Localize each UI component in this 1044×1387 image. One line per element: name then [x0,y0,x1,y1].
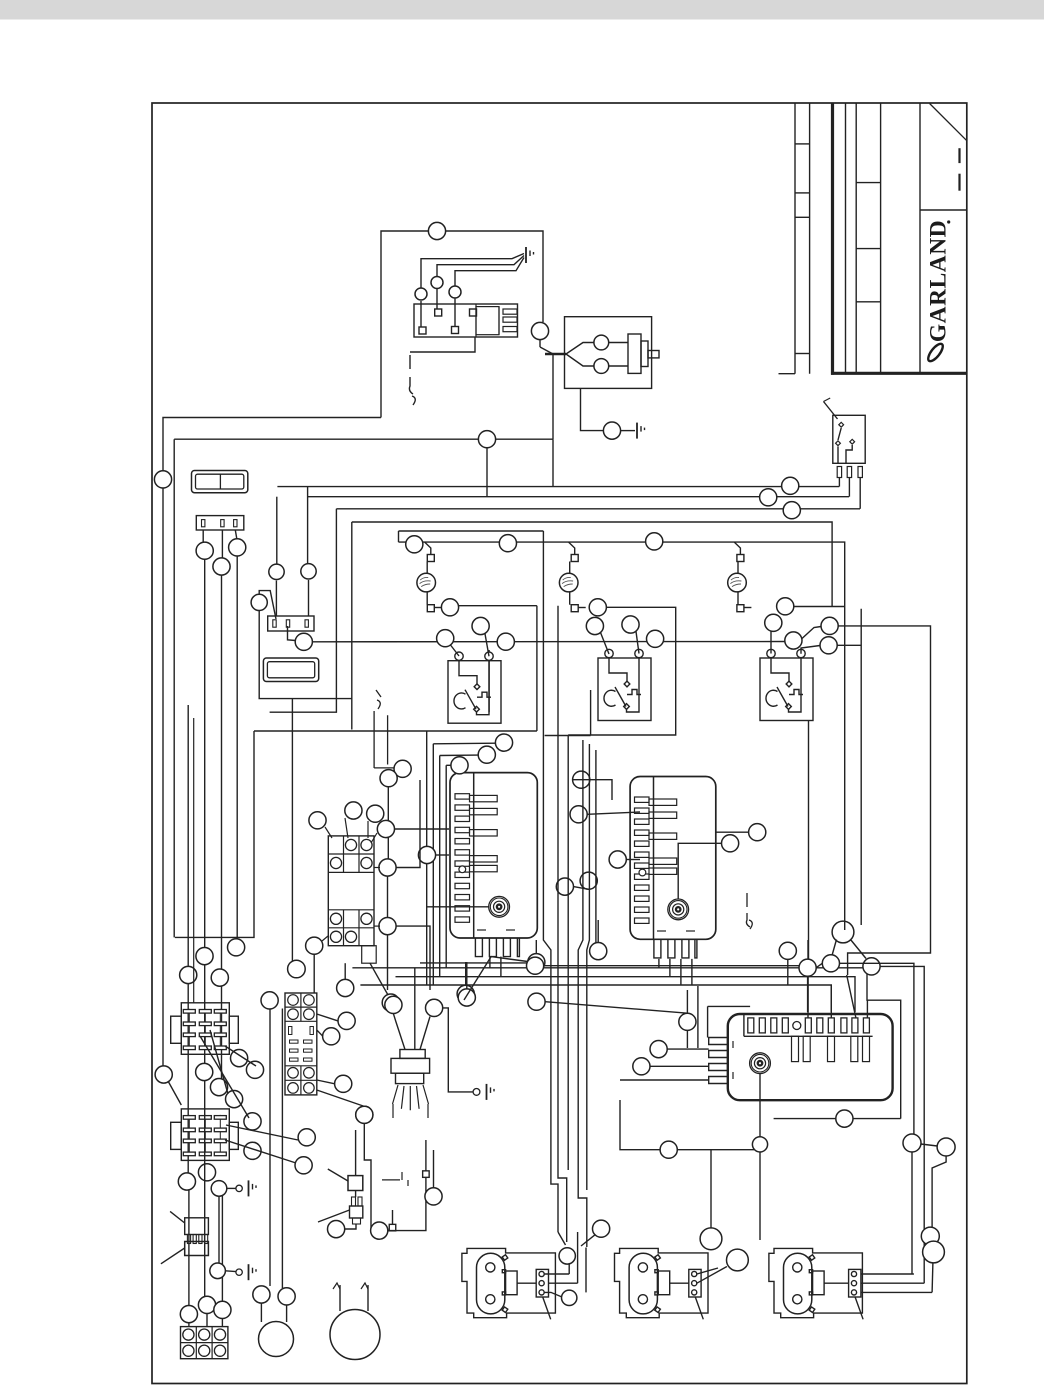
bus lower 5 [544,966,808,1012]
wire left vertical run E [236,556,238,939]
gray header bar [0,0,1044,20]
wire nut top [428,222,445,239]
relay base terminal [304,1009,315,1020]
diag wire [225,1046,256,1066]
base slots h [290,1040,299,1043]
module 2 tab [649,833,677,839]
wire nut [180,1306,197,1323]
relay base terminal [304,1083,315,1094]
base slots h [290,1058,299,1061]
left run G [193,718,195,1003]
transformer lead 2 [414,968,416,1050]
wire nut [379,859,396,876]
lamp feed bus [399,542,845,921]
wire nut [394,760,411,777]
module 1 slot [455,805,470,810]
strike lever 2 [161,1248,185,1264]
relay socket lower [171,1109,239,1161]
wire [317,1090,365,1106]
bus C left drop [270,509,337,712]
wire nut [298,1129,315,1146]
valve coil leads [609,342,628,344]
wire B c2 [697,1267,727,1284]
module 2 slot [635,852,650,857]
terminal pin 3 [452,327,459,334]
prong [205,1235,208,1244]
terminal grid [181,1327,228,1359]
wire nut burner B2 [727,1249,749,1271]
bus C [336,508,860,510]
wire nut [306,937,323,954]
lamp3 nut to right vertical [794,606,845,608]
wire nut [752,1137,767,1152]
wire nut burner A2 [562,1290,577,1305]
grid terminal [183,1329,194,1340]
pilot lamp 3 [728,573,747,592]
right vertical 2 [808,720,810,959]
title block thick bottom rule [831,372,967,375]
module 3 bullseye [750,1053,771,1074]
module 1 slot [455,906,470,911]
grid lines [181,1342,228,1344]
wire C c2 [861,1282,924,1284]
wire [364,1123,371,1230]
bundle wire 1 [543,531,558,1232]
relay1 loop vertical [488,650,490,712]
wire B c1 [697,1268,718,1274]
module 1 slot [455,850,470,855]
contactor terminal [330,913,341,924]
wire nut [377,820,394,837]
left run K [281,1009,283,1289]
wire [387,787,389,859]
lead [426,562,428,574]
contactor rows [328,853,374,855]
module 2 comb [654,939,697,958]
wire nut [198,1296,215,1313]
wire nut [371,1222,388,1239]
wire [597,920,599,943]
wire [686,1030,688,1048]
wire left vertical run C [204,559,206,1063]
wire nut [528,954,545,971]
module 3 slot [805,1018,811,1033]
relay base body [285,993,317,1095]
module 1 slot [455,839,470,844]
module 3 slot [748,1018,754,1033]
wire nut [458,989,475,1006]
module 2 break symbol [746,893,752,929]
diag wire [200,1036,249,1118]
module 1 slot [455,872,470,877]
lead [434,607,442,609]
wire [396,926,430,990]
wire A c1 to nut [544,1273,569,1275]
left run I2 [269,1009,271,1287]
ground G2 [637,423,645,439]
wire valve drop to bus A [552,439,554,486]
wire nut [556,878,573,895]
wire nut [593,1220,610,1237]
module 3 sense wire [759,1074,761,1137]
title block dash marks [958,148,960,163]
bundle left v4 [445,765,447,968]
lamp 3 feed [734,542,740,554]
lamp2 return wire [568,607,676,735]
wire nut run C mid [196,948,213,965]
wire [436,854,449,856]
motor lead [286,1305,288,1322]
module 1 tab [470,865,498,871]
wire nut [253,1286,270,1303]
module 3 tab [792,1036,799,1061]
wire top loop [381,231,543,418]
wire nut [820,637,837,654]
wire left vertical run B [173,439,175,937]
base slots h [290,1049,299,1052]
left run J [291,699,293,963]
pressure switch A [348,1176,363,1191]
lead [569,592,571,605]
module 2 slot [635,896,650,901]
wire [355,1191,357,1198]
strike lever A [328,1169,348,1181]
title block revision column [779,103,810,374]
module 1 comb [475,938,519,957]
module 2 comb drops [658,959,660,968]
wire to comb 2 [650,1065,709,1067]
wire nut [822,955,839,972]
wire nut [425,1188,442,1205]
junction sq A [423,1171,430,1178]
wire [716,831,749,833]
left run D2 [221,1196,223,1301]
wire [395,828,450,830]
wire [686,990,688,1013]
wire [466,962,468,989]
wire nut lamp3 [777,598,794,615]
wire nut [863,958,880,975]
grid terminal [214,1345,225,1356]
wire nut left drop [154,471,171,488]
bundle left v3 [439,756,441,977]
module 1 comb diagonals [464,957,491,1000]
contactor tab wire [370,963,388,995]
ground nut B [210,1263,226,1279]
interlock connector block [414,304,518,337]
wire nut [226,1091,243,1108]
diag to burner A nut [558,1232,566,1245]
transformer lead 3 [420,1017,430,1050]
wire nut [180,966,197,983]
wire [392,1210,394,1224]
drawing border frame [152,103,967,1384]
lead [737,592,739,605]
wire nut [382,994,399,1011]
module 1 tab [470,808,498,814]
wire nut [261,992,278,1009]
wire nut [385,996,402,1013]
wire nut [570,806,587,823]
wire [317,1030,323,1036]
hi-limit switch 3 [760,649,813,720]
lamp1 return wire [459,605,537,607]
wire nut [799,959,816,976]
wire [774,1118,901,1120]
wire nut bus B [760,489,777,506]
bundle wire 4 [578,740,587,1247]
wire nut [213,558,230,575]
module 3 slot [759,1018,765,1033]
wire nut [323,1028,340,1045]
wire nut lamp bus 2 [499,535,516,552]
contactor tab [362,946,377,964]
ground small circle A [236,1185,242,1191]
wire A right vertical [585,1248,587,1293]
module 3 slot [863,1018,869,1033]
contactor terminal [330,857,341,868]
contactor terminal [345,931,356,942]
diag [921,1144,938,1146]
module 3 feed 2 [830,985,832,1018]
spark ignitor A [462,1248,556,1319]
wire nut [345,802,362,819]
module 1 slot [455,917,470,922]
module 1 slot [455,861,470,866]
ground nut A [211,1181,227,1197]
module 2 dash marks [657,930,666,932]
rocker switch [192,471,248,493]
module 1 slot [455,883,470,888]
bundle wire 2 [558,606,567,1242]
wire nut [497,633,514,650]
wire to ground G2 [621,430,635,432]
module 2 slot [635,874,650,879]
module 3 feed 3 [866,1000,868,1018]
wire nut [211,969,228,986]
wire [396,780,420,868]
svg-text:GARLAND: GARLAND [926,220,952,342]
small nut 1 [415,288,427,300]
wire nut run E end [228,939,245,956]
valve ground wire [581,388,604,430]
wire nut [451,757,468,774]
wire nut [779,942,796,959]
wire [573,780,612,800]
GARLAND logo text [926,220,952,342]
wire nut [437,630,454,647]
diag feed [601,633,610,655]
module 2 slot [635,819,650,824]
wire [425,1140,427,1171]
diag wire [225,1140,296,1163]
module 1 tab [470,856,498,862]
transformer crowfoot [393,1085,429,1118]
contactor terminal [361,913,372,924]
jog wire [802,627,821,639]
module 3 slot [841,1018,847,1033]
ignition module 2 body [630,777,716,940]
wire [387,935,389,990]
diag staircase link [581,1235,595,1246]
relay base terminal [304,995,315,1006]
wire nut [198,1164,215,1181]
wire [697,986,699,1048]
module 1 tab [470,830,498,836]
bus E to lamp bus link [398,531,400,542]
wire [227,1187,236,1189]
contactor terminal [330,931,341,942]
pin lead [235,530,237,539]
wire nut [231,1050,248,1067]
wire nut to junction [539,340,541,347]
terminal pin 4 [470,309,477,316]
wire nut [328,1221,345,1238]
4-prong connector [185,1218,209,1235]
hi-limit switch 2 [598,649,651,720]
wire nut left of bar2 [251,594,267,610]
block connector [185,1242,209,1256]
wire nut [679,1013,696,1030]
return bus lower [254,730,537,732]
terminal pin 2 [435,309,442,316]
transformer lead 1 [393,1014,405,1050]
module 2 slot [635,841,650,846]
ground A [249,1180,257,1196]
lamp 3 top terminal [737,555,744,562]
wire nut [335,1075,352,1092]
Garland script swoosh [926,342,946,364]
wire [433,1150,435,1188]
wire [387,876,389,918]
module 3 feed diag [847,975,856,1018]
wire nut [647,630,664,647]
module 1 slot [455,827,470,832]
motor2 lead arrows [333,1283,368,1289]
relay2 section wire [590,690,592,736]
wire nut [921,1227,939,1245]
base slots v [289,1027,292,1035]
wire nut [214,1301,231,1318]
lead [569,562,571,574]
bus D left drop [351,522,353,730]
wire contactor to relay base [313,954,315,993]
long wire lamp row return [312,641,785,643]
grid terminal [214,1329,225,1340]
wire nut [178,1173,195,1190]
wire nut [580,872,597,889]
wire nut [380,770,397,787]
pin leads [420,301,422,327]
bracket marks [382,1172,408,1186]
left run F3 [188,1190,190,1305]
prong [193,1235,196,1244]
feed [770,631,772,653]
bus B drop [275,581,277,617]
module 2 bullseye [668,899,689,920]
module 2 slot [635,797,650,802]
module 3 tab [851,1036,858,1061]
module 2 slot [635,907,650,912]
nut jog to pin1 [259,591,276,619]
wire left vertical run A [162,488,164,1066]
connector pin [202,520,205,527]
ground fan wires [421,254,524,289]
wire [844,922,846,931]
module 3 slot [852,1018,858,1033]
junction sq B [389,1224,396,1231]
wire nut [660,1141,677,1158]
wire nut [337,979,354,996]
wire nut [923,1241,945,1263]
grid terminal [183,1345,194,1356]
wire [626,859,640,861]
valve plug [628,334,641,373]
wire to comb 3 [620,1079,709,1081]
lamp 1 top terminal [427,555,434,562]
wire nut [609,851,626,868]
module 2 slot [635,808,650,813]
left run C2 [204,1081,206,1297]
wire [344,1224,356,1229]
wire nut [495,734,512,751]
module 3 slot [817,1018,823,1033]
wire nut [367,805,384,822]
wire nut [528,993,545,1010]
bundle left v2 [432,744,434,985]
lead [737,562,739,574]
grid terminal [199,1345,210,1356]
bundle wire 6 [595,750,597,943]
nut diagonals [832,940,837,956]
lamp 1 bottom terminal [427,605,434,612]
lead [426,592,428,605]
module 2 pin hole [639,869,646,876]
trademark mark [947,220,950,223]
diag feed [451,645,460,656]
lamp1 loop vertical [536,606,538,731]
relay base terminal [288,1009,299,1020]
lead [744,607,752,609]
lead [578,607,586,609]
wire nut [244,1142,261,1159]
contactor terminal [361,839,372,850]
wire C c1 [861,1273,914,1275]
module 3 strip [743,1014,745,1036]
small nut 3 [449,286,461,298]
pressure switch B [350,1206,363,1218]
diag wire [226,1125,298,1140]
wire nut burner B1 [700,1228,722,1250]
wire nut [590,943,607,960]
wire nut [937,1138,955,1156]
module 1 comb drops [489,957,491,968]
diag nut link [816,963,822,967]
wire nut [622,616,639,633]
bus A [277,486,839,488]
bus lower 3 [360,985,831,1012]
wire nut [478,746,495,763]
wire nut [573,771,590,788]
connector pin [221,520,224,527]
wire nut [527,957,544,974]
selector switch box [833,415,865,463]
wire mid horizontal [174,438,553,440]
strike lever B [318,1210,350,1222]
3-pin connector upper [196,516,244,530]
module 3 tab [828,1036,835,1061]
wire to ground C [443,1008,473,1092]
